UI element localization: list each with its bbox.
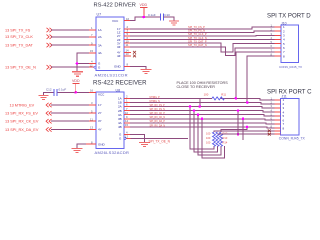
svg-text:GND: GND <box>98 142 106 146</box>
ground (U8 GND) <box>72 148 83 152</box>
off-page connector SPI_TX_FS <box>5 28 31 32</box>
capacitor C10 <box>148 13 170 21</box>
svg-text:SPI_TX_FS_N: SPI_TX_FS_N <box>188 29 205 33</box>
wire R14 top staircase to DAT row <box>221 127 247 132</box>
svg-text:2A: 2A <box>98 35 102 39</box>
node riser 2B bottom <box>237 133 240 136</box>
U8 pin names inside <box>98 93 122 147</box>
svg-text:SPI RX PORT C: SPI RX PORT C <box>267 88 312 95</box>
svg-text:CONN_RJ45_TX: CONN_RJ45_TX <box>279 65 302 69</box>
off-page connector SPI_RX_CK_EV <box>5 120 39 124</box>
ground (U8 G) <box>139 143 150 147</box>
svg-text:SPI TX PORT D: SPI TX PORT D <box>267 12 311 19</box>
wire C10 to ground <box>164 17 174 21</box>
svg-text:0.1uF: 0.1uF <box>148 13 156 17</box>
J10 pin numbers outside <box>271 23 273 56</box>
svg-text:U8: U8 <box>116 89 121 93</box>
wire shield S1 staircase <box>214 131 275 132</box>
svg-text:4Z: 4Z <box>117 54 121 58</box>
capacitor C12 <box>46 87 66 95</box>
wire 1Z to J10 pin2 <box>130 31 275 32</box>
svg-text:AM26LS31CDR: AM26LS31CDR <box>95 73 128 78</box>
svg-text:R13: R13 <box>223 136 228 140</box>
no-connect X on pin 13 <box>133 55 136 58</box>
svg-text:SPI_TX_CLK_N: SPI_TX_CLK_N <box>188 36 207 40</box>
J11 pin numbers outside <box>271 96 273 128</box>
wire 3Z to J10 pin6 with jog <box>130 47 275 56</box>
svg-text:13 SPI_TX_CLK: 13 SPI_TX_CLK <box>5 35 33 39</box>
U8 left pin stubs with numbers <box>86 92 96 144</box>
wire U8 GND to ground <box>77 144 86 148</box>
off-page connector SPI_TX_OE_N <box>5 66 36 70</box>
off-page connector SPI_RX_FS_EV <box>5 112 38 116</box>
node MTRIG_N junction <box>246 101 249 104</box>
svg-text:4B: 4B <box>118 125 122 129</box>
wire G-bar SPI_TX_OE_N <box>131 137 189 139</box>
node junction 4A/G <box>76 62 79 65</box>
svg-text:R11: R11 <box>221 93 226 97</box>
wire C12 to VCC pin16 U8 <box>57 91 89 93</box>
no-connect X on J11 shield pin S1 <box>268 129 271 132</box>
wire riser 2B to shield row <box>237 111 239 135</box>
svg-text:SPI_RX_FS_P: SPI_RX_FS_P <box>150 105 166 107</box>
U7 right pin stubs with pin numbers <box>124 21 131 67</box>
U8 right pin stubs with numbers <box>124 98 131 138</box>
G-bar bubble U8 <box>124 137 126 139</box>
svg-text:100: 100 <box>204 93 209 97</box>
pin 12 inversion bubble <box>94 66 96 68</box>
off-page connector MTRIG_EV <box>10 103 35 107</box>
svg-text:11: 11 <box>126 43 129 47</box>
svg-text:1A: 1A <box>98 28 102 32</box>
svg-text:SPI_TX_FS_P: SPI_TX_FS_P <box>188 25 205 29</box>
svg-text:100: 100 <box>206 132 211 136</box>
svg-text:SPI_RX_FS_N: SPI_RX_FS_N <box>150 109 166 111</box>
wire 2B to J11 pin4 <box>130 111 275 113</box>
svg-text:GND: GND <box>114 65 122 69</box>
svg-text:U7: U7 <box>97 13 102 17</box>
connector J11 <box>279 95 306 141</box>
ground arrow below G <box>72 72 83 76</box>
svg-text:VCC: VCC <box>112 19 119 23</box>
svg-text:13: 13 <box>90 126 94 130</box>
node riser 2B top <box>237 109 240 112</box>
svg-text:SPI_TX_OE_N: SPI_TX_OE_N <box>149 140 171 144</box>
svg-text:13 SPI_RX_FS_EV: 13 SPI_RX_FS_EV <box>5 112 38 116</box>
wire VCC pin16 to VDD and C10 <box>130 17 160 21</box>
svg-text:1Y: 1Y <box>98 103 102 107</box>
wire SPI_RX_CK_EV <box>51 120 89 122</box>
wire MTRIG_N riser to J10 pin8 <box>247 56 274 102</box>
svg-text:SPI_RX_DA_N: SPI_RX_DA_N <box>150 124 166 127</box>
svg-text:R14: R14 <box>223 140 228 144</box>
svg-text:4A: 4A <box>98 51 102 55</box>
svg-text:RS-422 DRIVER: RS-422 DRIVER <box>94 2 136 8</box>
svg-text:16: 16 <box>126 17 130 21</box>
svg-text:SPI_TX_CLK_P: SPI_TX_CLK_P <box>188 32 207 36</box>
svg-text:C12: C12 <box>46 87 52 91</box>
svg-text:15: 15 <box>90 49 94 53</box>
svg-text:SPI_RX_CK_N: SPI_RX_CK_N <box>150 117 166 119</box>
wire 1B to J11 pin2 <box>130 103 275 105</box>
wire 2A to J11 pin3 <box>130 107 275 108</box>
wire SPI_RX_DA_EV <box>51 129 89 131</box>
svg-text:SPI_TX_DAT_N: SPI_TX_DAT_N <box>188 43 207 47</box>
wire CK-B termination drop <box>202 119 225 158</box>
power VDD (driver) <box>140 3 148 17</box>
svg-text:13 SPI_RX_DA_EV: 13 SPI_RX_DA_EV <box>5 128 39 132</box>
svg-text:3Y: 3Y <box>98 119 102 123</box>
power VDD (receiver) <box>72 79 80 92</box>
node riser 3B <box>242 118 245 121</box>
wire ground to C12 <box>44 92 54 95</box>
wire 3A to J11 pin5 <box>130 115 275 116</box>
svg-text:0.1uF: 0.1uF <box>59 87 67 91</box>
svg-text:RS-422 RECEIVER: RS-422 RECEIVER <box>93 80 147 87</box>
wire MTRIG_P riser to J10 pin7 <box>236 52 275 98</box>
wire SPI_TX_CLK <box>51 36 89 38</box>
wire 1A to J11 pin1 <box>130 98 275 100</box>
node R14 on 4B row <box>246 126 249 129</box>
node CK-A tap <box>197 113 200 116</box>
wire riser 3B drop <box>242 119 244 140</box>
svg-text:11: 11 <box>90 117 93 121</box>
resistor R12 <box>206 132 228 147</box>
IC U7 quad RS-422 driver <box>95 13 128 78</box>
off-page connector SPI_RX_DA_EV <box>5 128 39 132</box>
svg-text:C10: C10 <box>164 13 170 17</box>
ground (U7 GND) <box>141 70 152 74</box>
svg-text:CONN_RJ45_TX: CONN_RJ45_TX <box>279 136 306 140</box>
net labels RX pairs <box>150 97 166 128</box>
svg-text:13 SPI_TX_FS: 13 SPI_TX_FS <box>5 28 31 32</box>
svg-text:MTRIG_P: MTRIG_P <box>150 97 161 99</box>
node CK-B tap <box>201 118 204 121</box>
J10 pin stubs <box>275 27 282 56</box>
resistor R13 <box>206 132 228 146</box>
resistor R14 <box>206 132 228 146</box>
svg-text:SPI_RX_CK_P: SPI_RX_CK_P <box>150 113 166 115</box>
net labels TX pairs <box>188 25 207 47</box>
node FS-A tap <box>189 105 192 108</box>
node VDD junction (receiver) <box>74 91 77 94</box>
wire SPI_RX_FS_EV <box>51 112 89 114</box>
wire SPI_TX_OE_N to pin 12 <box>51 66 89 68</box>
svg-text:13: 13 <box>126 52 130 56</box>
svg-text:VCC: VCC <box>98 93 105 97</box>
svg-text:AM26LS32ACDR: AM26LS32ACDR <box>95 150 130 155</box>
off-page connector SPI_TX_DAT <box>5 44 33 48</box>
U7 pin names inside <box>98 19 122 69</box>
wire 4A/G tie <box>77 53 89 72</box>
no-connect X on J11 shield pin S2 <box>268 133 271 136</box>
wire U7 GND to ground <box>130 66 146 69</box>
svg-text:15: 15 <box>125 123 129 127</box>
no-connect X on pin 14 <box>133 51 136 54</box>
svg-text:SPI_RX_DA_P: SPI_RX_DA_P <box>150 120 166 123</box>
wire 3Y to J10 pin5 with jog <box>130 43 275 52</box>
svg-text:13 SPI_RX_CK_EV: 13 SPI_RX_CK_EV <box>5 120 39 124</box>
ground (C10) <box>169 21 179 25</box>
resistor R11 inline on MTRIG row <box>204 93 227 100</box>
wire SPI_TX_DAT <box>51 44 89 46</box>
power ground (C12) <box>39 96 49 100</box>
svg-text:CLOSE TO RECEIVER: CLOSE TO RECEIVER <box>177 85 216 89</box>
wire MTRIG_EV <box>51 104 89 106</box>
svg-text:SPI_TX_DAT_P: SPI_TX_DAT_P <box>188 39 207 43</box>
wire G to ground (receiver) <box>130 134 144 142</box>
J11 pin names inside <box>283 98 285 130</box>
wire 1Y to J10 pin1 <box>130 27 275 29</box>
svg-text:100: 100 <box>206 136 211 140</box>
svg-text:16: 16 <box>90 89 94 93</box>
wire 2Y to J10 pin3 <box>130 34 275 37</box>
svg-text:VDD: VDD <box>140 3 148 7</box>
wire FS-B termination drop <box>194 111 218 152</box>
svg-text:3Z: 3Z <box>117 45 121 49</box>
svg-text:R12: R12 <box>223 132 228 136</box>
note PLACE 100 OHM RESISTORS CLOSE TO RECEIVER <box>177 81 229 89</box>
svg-text:3A: 3A <box>98 43 102 47</box>
svg-text:4Y: 4Y <box>98 128 102 132</box>
svg-text:100: 100 <box>206 140 211 144</box>
connector J10 <box>279 22 302 70</box>
wire 2Z to J10 pin4 <box>130 39 275 41</box>
wire SPI_TX_FS <box>51 29 89 31</box>
wire 4A to J11 pin7 <box>130 123 275 124</box>
node MTRIG_P junction <box>235 97 238 100</box>
svg-text:2Y: 2Y <box>98 111 102 115</box>
svg-text:13 SPI_TX_OE_N: 13 SPI_TX_OE_N <box>5 66 36 70</box>
IC U8 quad RS-422 receiver <box>95 89 130 156</box>
J10 pin names inside <box>283 25 285 58</box>
wire R11 tap to FS row <box>199 98 201 106</box>
svg-text:12: 12 <box>90 63 94 67</box>
svg-text:MTRIG_N: MTRIG_N <box>150 101 161 103</box>
svg-text:13 MTRIG_EV: 13 MTRIG_EV <box>10 103 35 107</box>
node VDD junction <box>143 16 146 19</box>
svg-text:VDD: VDD <box>72 79 80 83</box>
wire CK termination drop <box>198 115 221 155</box>
U7 left pin stubs with pin numbers <box>89 30 96 67</box>
off-page connector SPI_TX_CLK <box>5 35 33 39</box>
svg-text:13 SPI_TX_DAT: 13 SPI_TX_DAT <box>5 44 33 48</box>
wire FS termination drop <box>190 107 214 150</box>
wire 4B to J11 pin8 <box>130 127 275 128</box>
wire shield S2 staircase <box>218 133 275 135</box>
J11 pin stubs <box>275 100 281 134</box>
node FS-B tap <box>193 109 196 112</box>
svg-text:12: 12 <box>125 135 129 139</box>
node R11 tap <box>199 105 202 108</box>
wire 3B to J11 pin6 <box>130 119 275 120</box>
